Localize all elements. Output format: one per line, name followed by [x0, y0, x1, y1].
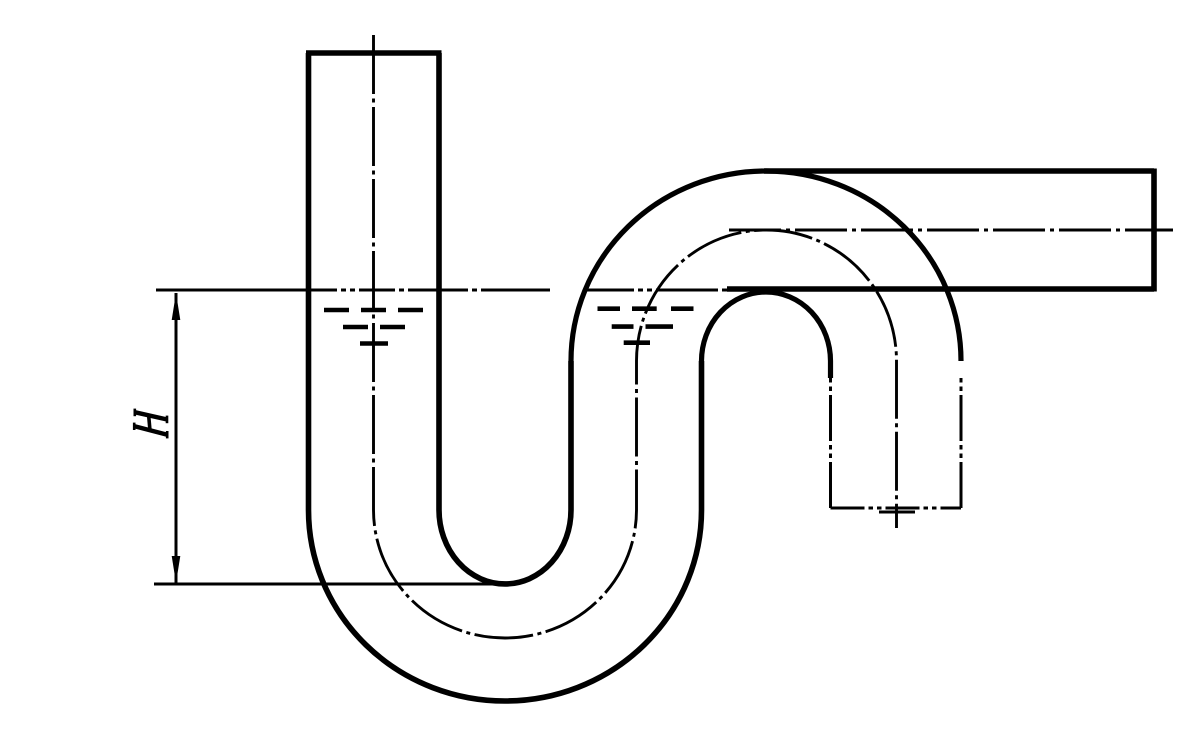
phantom downward outlet right wall (dash-dot-dot): [960, 378, 963, 508]
left inlet tube outer wall + bottom U outer wall + riser inner wall (pipe wall, thick): [309, 53, 702, 701]
dimension arrowhead bottom: [172, 556, 181, 583]
horizontal outlet pipe centerline (dash-dot): [729, 229, 1173, 232]
horizontal outlet pipe top wall: [764, 168, 1154, 174]
water surface mark in left tube, row 3: [360, 341, 388, 346]
horizontal outlet pipe end cap: [1151, 169, 1157, 292]
dimension arrowhead top: [172, 293, 181, 320]
water surface mark in bend area, row 3: [624, 340, 650, 345]
waterline right part inside bend (thin): [585, 289, 727, 292]
horizontal outlet pipe bottom wall: [727, 286, 1154, 292]
phantom downward outlet open end (dash-dot-dot): [831, 507, 962, 510]
tick at lower end of phantom outlet centerline: [879, 511, 915, 514]
dimension H extension line bottom: [154, 583, 507, 586]
phantom downward outlet left wall (dash-dot-dot): [829, 378, 832, 508]
left inlet tube inner wall + bottom U inner wall + riser outer wall (pipe wall, thick): [439, 53, 571, 584]
water surface mark in bend area, row 1: [598, 306, 694, 311]
water surface mark in left tube, row 1: [324, 308, 423, 313]
water surface mark in left tube, row 2: [343, 325, 405, 330]
dimension H line (vertical): [175, 293, 178, 583]
waterline left part (thin, dash-dot-dot texture): [156, 289, 550, 292]
180-degree top bend outer wall (thick arc): [571, 171, 961, 361]
dimension label H (italic capital, rotated 90 CCW, drawn as strokes): [134, 409, 167, 439]
main centerline: left tube, bottom U, riser, top bend, phantom outlet (dash-dot): [374, 35, 897, 638]
water surface mark in bend area, row 2: [612, 324, 673, 329]
180-degree top bend inner wall (thick arc): [702, 292, 831, 378]
top cap of left inlet tube: [306, 50, 442, 56]
